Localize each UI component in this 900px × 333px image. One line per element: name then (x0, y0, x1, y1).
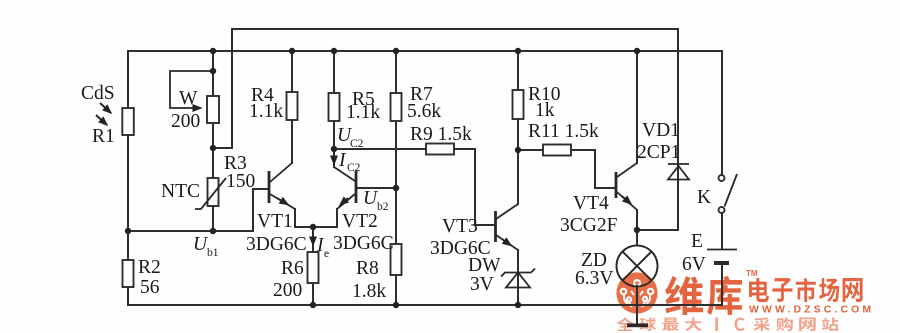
junction W column / rail B (210, 48, 216, 54)
svg-text:K: K (697, 187, 711, 208)
svg-text:VT2: VT2 (342, 211, 378, 232)
wire VT3 collector column (517, 150, 519, 204)
zener diode DW (501, 269, 535, 288)
wire R4 column (291, 51, 293, 163)
wire switch K to battery (721, 213, 723, 248)
svg-text:3V: 3V (470, 274, 494, 295)
potentiometer W body (207, 96, 219, 123)
wire bottom rail (128, 304, 722, 306)
ground stub below lamp (627, 305, 648, 325)
current arrow Ie (312, 233, 314, 245)
svg-text:56: 56 (140, 277, 160, 298)
transistor VT2 (334, 167, 356, 209)
svg-text:R1: R1 (92, 126, 115, 147)
junction VT4 emitter / VD1 (634, 227, 640, 233)
wire W potentiometer column (212, 51, 214, 231)
wire VT4 emitter to lamp (636, 210, 638, 305)
transistor VT3 (496, 204, 519, 250)
svg-text:6V: 6V (682, 254, 706, 275)
svg-text:2CP1: 2CP1 (637, 142, 680, 163)
svg-text:6.3V: 6.3V (575, 268, 613, 289)
wire R5 column (333, 51, 335, 167)
svg-text:5.6k: 5.6k (407, 101, 441, 122)
svg-text:TM: TM (746, 269, 758, 278)
svg-text:W: W (179, 88, 198, 109)
wire battery to bottom rail (721, 265, 723, 305)
watermark main text (617, 269, 875, 331)
svg-text:VT3: VT3 (442, 216, 478, 237)
junction VT4 collector / rail B (634, 48, 640, 54)
junction shared emitters VT1 VT2 (310, 224, 316, 230)
switch K (719, 174, 738, 213)
svg-text:R6: R6 (281, 258, 304, 279)
potentiometer W wiper bracket and arrow (170, 71, 213, 108)
svg-text:R8: R8 (356, 258, 379, 279)
wire shared emitter bus (295, 209, 337, 227)
wire VT3 emitter to DW (517, 250, 519, 305)
wire top rail B (128, 50, 722, 52)
svg-text:R11 1.5k: R11 1.5k (528, 121, 599, 142)
svg-text:b1: b1 (207, 247, 219, 259)
wire VT4 collector column (636, 51, 638, 163)
svg-text:1.1k: 1.1k (346, 102, 380, 123)
svg-text:CdS: CdS (81, 83, 115, 104)
svg-text:b2: b2 (377, 201, 389, 213)
junction left rail / Ub1 wire (125, 228, 131, 234)
wire battery column overdraw (721, 265, 723, 305)
junction R4 / rail B (289, 48, 295, 54)
resistor R8 body (391, 244, 402, 275)
svg-text:VT4: VT4 (573, 193, 609, 214)
resistor R5 body (329, 93, 340, 121)
svg-text:200: 200 (273, 280, 302, 301)
wire lamp lower lead overdraw (636, 286, 638, 324)
watermark text 全球最大IC采购网站 (617, 318, 633, 331)
watermark text 维库 (665, 276, 703, 315)
node Ub2 junction at R7/R8 (393, 185, 399, 191)
svg-text:200: 200 (171, 111, 200, 132)
svg-text:C2: C2 (350, 138, 364, 150)
wire emitter node to VD1 (637, 229, 678, 231)
resistor R9 body (426, 144, 454, 155)
junction R6 / bottom rail (310, 302, 316, 308)
CdS light arrows (96, 103, 111, 125)
wire VD1 column (677, 29, 679, 230)
junction DW / bottom rail (515, 302, 521, 308)
node UC2 junction at R5 bottom (331, 146, 337, 152)
svg-text:e: e (324, 248, 329, 260)
svg-text:1k: 1k (535, 100, 555, 121)
thermistor R3 NTC body (208, 178, 219, 206)
wire bottom rail overdraw (560, 265, 722, 324)
junction R10 / rail B (515, 48, 521, 54)
resistor R4 body (287, 92, 298, 120)
junction lamp / bottom rail (634, 302, 640, 308)
svg-text:C2: C2 (347, 162, 361, 174)
resistor R11 body (543, 145, 571, 156)
ground bar overdraw (627, 323, 648, 327)
svg-text:R2: R2 (138, 257, 161, 278)
svg-text:3CG2F: 3CG2F (560, 215, 618, 236)
lamp ZD outline overdraw (617, 246, 658, 287)
transistor VT1 (269, 163, 295, 209)
wire UC2 to R9 run (334, 149, 494, 225)
junction R5 / rail B (331, 48, 337, 54)
watermark text 电子市场网 (749, 278, 769, 302)
wire R10 column (517, 51, 519, 150)
svg-text:3DG6C: 3DG6C (333, 233, 394, 254)
wire R8 column (395, 188, 397, 305)
wire node Ub1 run (128, 189, 267, 231)
svg-text:NTC: NTC (161, 181, 200, 202)
svg-text:R9 1.5k: R9 1.5k (410, 124, 472, 145)
watermark logo circle (616, 272, 657, 313)
wire top rail A (232, 28, 678, 30)
lamp ZD (617, 246, 658, 287)
resistor R1 CdS photoresistor body (122, 108, 134, 135)
svg-text:VD1: VD1 (642, 120, 680, 141)
svg-text:VT1: VT1 (257, 211, 293, 232)
wire VT2 base link (357, 187, 396, 189)
svg-text:1.1k: 1.1k (249, 101, 283, 122)
resistor R6 body (308, 252, 319, 283)
thermistor R3 NTC diagonal stroke (195, 178, 226, 209)
wire emitter to R6 (312, 227, 314, 305)
diode VD1 (668, 164, 689, 180)
node Ub1 junction at NTC bottom (210, 228, 216, 234)
svg-text:150: 150 (226, 171, 255, 192)
battery E (707, 250, 737, 264)
svg-text:3DG6C: 3DG6C (246, 234, 307, 255)
resistor R7 body (391, 93, 402, 121)
wire R7 column (395, 51, 397, 188)
transistor VT4 (616, 163, 637, 210)
junction W bottom / rail A drop (210, 145, 216, 151)
resistor R10 body (513, 90, 524, 119)
junction R8 / bottom rail (393, 302, 399, 308)
junction W wiper tie (210, 68, 216, 74)
svg-text:I: I (338, 150, 347, 171)
junction R10/R11/VT3 collector (515, 147, 521, 153)
svg-text:1.8k: 1.8k (352, 281, 386, 302)
wire left rail (127, 51, 129, 305)
wire R11 run to VT3 collector node (518, 150, 615, 188)
svg-text:WWW.DZSC.COM: WWW.DZSC.COM (749, 304, 874, 316)
svg-text:DW: DW (468, 255, 501, 276)
wire switch K column upper (721, 51, 723, 175)
resistor R2 body (123, 260, 134, 287)
junction R7 / rail B (393, 48, 399, 54)
svg-text:E: E (691, 231, 703, 252)
current arrow IC2 (333, 152, 335, 164)
wire rail A drop to wiper node (213, 29, 232, 148)
